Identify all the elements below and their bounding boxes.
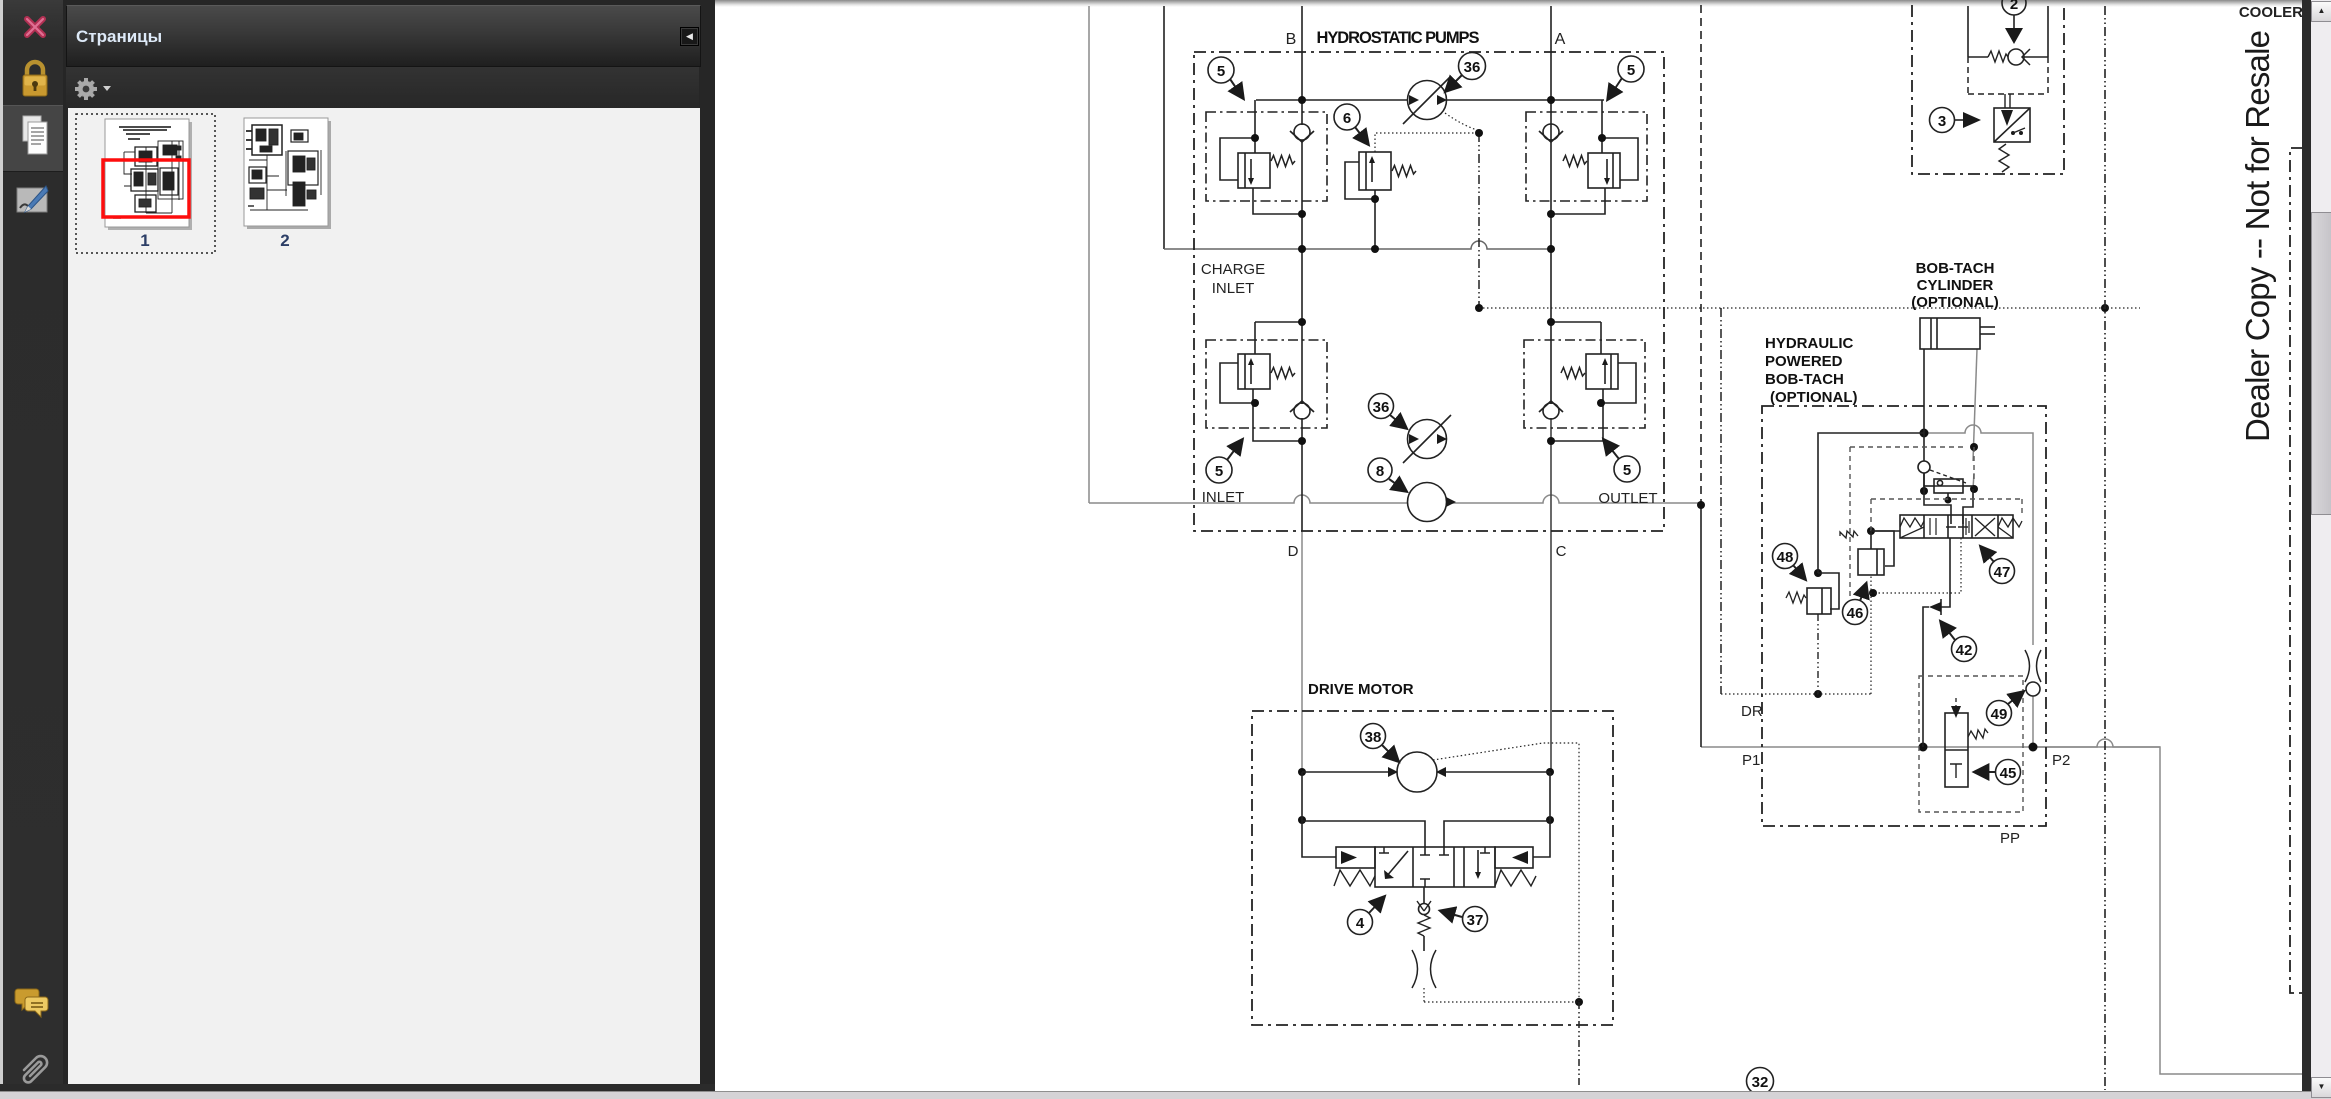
svg-text:INLET: INLET <box>1212 280 1255 297</box>
svg-text:3: 3 <box>1938 113 1946 130</box>
svg-text:36: 36 <box>1464 59 1481 76</box>
svg-text:POWERED: POWERED <box>1765 353 1843 370</box>
svg-text:42: 42 <box>1956 642 1973 659</box>
svg-text:6: 6 <box>1343 110 1351 127</box>
svg-text:P1: P1 <box>1742 752 1760 769</box>
svg-text:5: 5 <box>1217 63 1225 80</box>
svg-text:DR: DR <box>1741 703 1763 720</box>
svg-text:36: 36 <box>1373 399 1390 416</box>
svg-text:5: 5 <box>1627 62 1635 79</box>
svg-text:4: 4 <box>1356 915 1365 932</box>
svg-text:5: 5 <box>1623 462 1631 479</box>
svg-text:32: 32 <box>1752 1074 1769 1091</box>
svg-text:46: 46 <box>1847 605 1864 622</box>
svg-text:INLET: INLET <box>1202 489 1245 506</box>
svg-text:48: 48 <box>1777 549 1794 566</box>
svg-text:HYDROSTATIC PUMPS: HYDROSTATIC PUMPS <box>1317 29 1480 47</box>
svg-text:Dealer Copy -- Not for Resale: Dealer Copy -- Not for Resale <box>2239 30 2276 442</box>
svg-text:D: D <box>1288 543 1299 560</box>
svg-text:2: 2 <box>2010 0 2018 13</box>
svg-text:B: B <box>1286 31 1297 48</box>
svg-text:HYDRAULIC: HYDRAULIC <box>1765 335 1853 352</box>
svg-text:45: 45 <box>2000 765 2017 782</box>
svg-text:COOLER: COOLER <box>2239 4 2303 21</box>
svg-text:BOB-TACH: BOB-TACH <box>1765 371 1844 388</box>
svg-text:P2: P2 <box>2052 752 2070 769</box>
svg-text:47: 47 <box>1994 564 2011 581</box>
svg-text:(OPTIONAL): (OPTIONAL) <box>1911 294 1999 311</box>
svg-text:CHARGE: CHARGE <box>1201 261 1265 278</box>
svg-text:(OPTIONAL): (OPTIONAL) <box>1770 389 1858 406</box>
svg-text:38: 38 <box>1365 729 1382 746</box>
svg-text:5: 5 <box>1215 463 1223 480</box>
svg-text:OUTLET: OUTLET <box>1598 490 1657 507</box>
svg-text:C: C <box>1556 543 1567 560</box>
svg-text:CYLINDER: CYLINDER <box>1917 277 1994 294</box>
svg-text:DRIVE MOTOR: DRIVE MOTOR <box>1308 681 1414 698</box>
svg-text:37: 37 <box>1467 912 1484 929</box>
svg-text:8: 8 <box>1376 463 1384 480</box>
svg-text:A: A <box>1555 31 1566 48</box>
svg-text:49: 49 <box>1991 706 2008 723</box>
svg-text:PP: PP <box>2000 830 2020 847</box>
svg-text:BOB-TACH: BOB-TACH <box>1916 260 1995 277</box>
